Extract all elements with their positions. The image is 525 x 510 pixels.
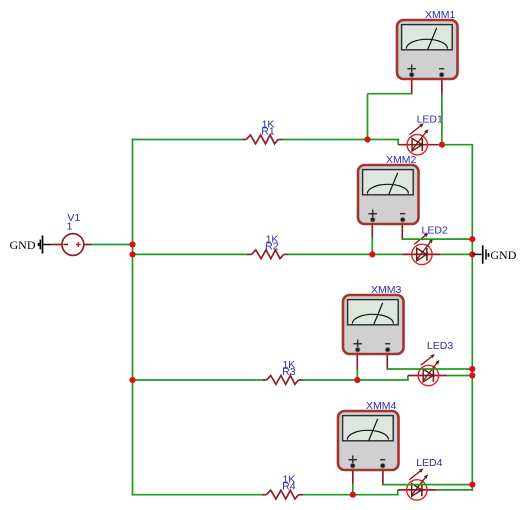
junction bbox=[469, 251, 475, 257]
XMM4 - pin wire bbox=[382, 465, 384, 486]
svg-text:LED3: LED3 bbox=[427, 340, 453, 352]
svg-text:LED1: LED1 bbox=[417, 114, 443, 126]
junction bbox=[469, 236, 475, 242]
wire bbox=[288, 253, 403, 255]
junction bbox=[439, 142, 445, 148]
XMM1 + pin wire bbox=[411, 75, 413, 95]
voltage source V1 bbox=[51, 234, 93, 256]
LED LED1 bbox=[407, 123, 428, 155]
multimeter XMM4 bbox=[338, 411, 399, 470]
wire bbox=[303, 494, 399, 496]
svg-text:GND: GND bbox=[10, 238, 36, 252]
wire bbox=[368, 93, 413, 95]
XMM3 - pin wire bbox=[386, 350, 388, 370]
svg-text:XMM4: XMM4 bbox=[366, 400, 396, 412]
wire bbox=[132, 139, 242, 141]
junction bbox=[369, 251, 375, 257]
XMM1 - pin wire bbox=[441, 75, 443, 95]
wire bbox=[43, 244, 51, 246]
wire bbox=[356, 369, 358, 380]
svg-text:R1: R1 bbox=[261, 126, 275, 138]
junction bbox=[350, 492, 356, 498]
svg-text:R3: R3 bbox=[282, 366, 296, 378]
wire bbox=[472, 253, 481, 255]
svg-text:1: 1 bbox=[67, 221, 73, 233]
ground GND (right) bbox=[483, 245, 517, 263]
wire bbox=[471, 485, 473, 491]
LED2 lead wire bbox=[403, 253, 441, 255]
wire bbox=[441, 253, 473, 255]
svg-text:XMM3: XMM3 bbox=[371, 284, 401, 296]
svg-text:XMM2: XMM2 bbox=[386, 154, 416, 166]
svg-text:XMM1: XMM1 bbox=[425, 9, 455, 21]
XMM2 - pin wire bbox=[401, 220, 403, 240]
wire bbox=[92, 244, 133, 246]
svg-text:LED2: LED2 bbox=[422, 224, 448, 236]
wire bbox=[132, 379, 262, 381]
XMM4 + pin wire bbox=[352, 465, 354, 484]
XMM2 + pin wire bbox=[371, 220, 373, 239]
LED LED3 bbox=[418, 354, 439, 386]
LED4 lead wire bbox=[398, 489, 437, 491]
junction bbox=[469, 372, 475, 378]
wire bbox=[303, 379, 409, 381]
resistor R4 bbox=[262, 490, 303, 499]
junction bbox=[469, 482, 475, 488]
wire bbox=[352, 484, 354, 495]
resistor R3 bbox=[262, 376, 303, 385]
LED LED2 bbox=[412, 233, 433, 265]
junction bbox=[129, 377, 135, 383]
wire bbox=[402, 238, 473, 240]
junction bbox=[129, 241, 135, 247]
wire bbox=[447, 375, 473, 377]
svg-text:LED4: LED4 bbox=[416, 457, 442, 469]
wire bbox=[367, 94, 369, 140]
left bus wire bbox=[132, 139, 134, 496]
multimeter XMM3 bbox=[343, 295, 404, 354]
LED LED4 bbox=[407, 469, 428, 501]
right bus wire bbox=[471, 145, 473, 485]
wire bbox=[387, 368, 473, 370]
wire bbox=[371, 238, 373, 255]
resistor R1 bbox=[242, 135, 283, 144]
LED1 lead wire bbox=[398, 144, 438, 146]
junction bbox=[129, 251, 135, 257]
junction bbox=[364, 136, 370, 142]
XMM3 + pin wire bbox=[356, 350, 358, 370]
junction bbox=[354, 377, 360, 383]
wire bbox=[441, 94, 443, 145]
multimeter XMM1 bbox=[397, 20, 458, 79]
svg-text:R2: R2 bbox=[265, 240, 279, 252]
wire bbox=[397, 140, 399, 145]
wire bbox=[132, 494, 262, 496]
wire bbox=[383, 484, 473, 486]
svg-text:R4: R4 bbox=[282, 481, 296, 493]
svg-text:GND: GND bbox=[490, 248, 516, 262]
ground GND (left) bbox=[10, 235, 43, 253]
wire bbox=[283, 139, 399, 141]
LED3 lead wire bbox=[408, 375, 447, 377]
wire bbox=[438, 144, 473, 146]
wire bbox=[437, 489, 474, 491]
multimeter XMM2 bbox=[358, 165, 419, 224]
wire bbox=[132, 253, 247, 255]
resistor R2 bbox=[247, 250, 288, 259]
wire bbox=[407, 376, 409, 381]
junction bbox=[469, 366, 475, 372]
wire bbox=[397, 490, 399, 495]
